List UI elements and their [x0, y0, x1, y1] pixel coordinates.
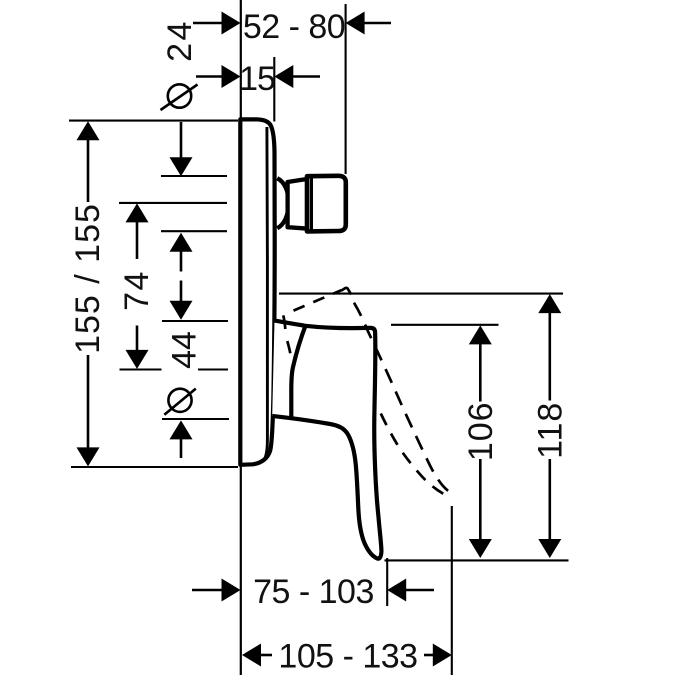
dim 52-80 left arrow	[222, 12, 241, 35]
dim 106 top arrow	[469, 325, 492, 344]
dim 155/155 bottom arrow	[87, 355, 90, 448]
handle collar edge	[291, 326, 305, 417]
escutcheon plate outline	[240, 119, 274, 464]
plate inner contour line	[264, 127, 267, 460]
svg-text:15: 15	[239, 60, 275, 98]
dim 106 bottom arrow	[479, 459, 482, 540]
dim Ø44 bottom extension line	[162, 418, 229, 420]
dim 155/155 bottom extension line	[71, 466, 238, 468]
knob face line	[310, 177, 313, 230]
dim 105-133 extension line at raised-handle tip	[451, 506, 453, 675]
wall line	[240, 0, 242, 675]
dim Ø44 diameter symbol	[168, 389, 191, 412]
dim 74 bottom extension line (handle axis)	[120, 368, 162, 370]
dim 74 bottom arrow	[136, 326, 139, 352]
dim 75-103 left arrow	[192, 589, 223, 592]
dim Ø44 top extension line	[162, 320, 228, 322]
knob top extension line	[161, 175, 227, 177]
dashed raised-handle lower silhouette	[381, 414, 445, 495]
svg-text:106: 106	[462, 401, 500, 461]
dim 15 left arrow	[222, 65, 241, 88]
svg-text:118: 118	[532, 402, 570, 459]
svg-text:75 - 103: 75 - 103	[253, 573, 374, 611]
knob collar	[288, 179, 309, 229]
dim 52-80 extension line at knob face	[345, 4, 347, 174]
svg-text:52 - 80: 52 - 80	[243, 8, 345, 46]
dashed raised-handle back edge	[283, 315, 290, 353]
dim 52-80 right arrow	[346, 12, 365, 35]
dim 105-133 right arrow	[433, 644, 452, 667]
dim Ø24 upper arrow	[180, 122, 183, 159]
dim 118 top arrow	[538, 294, 561, 313]
svg-text:105 - 133: 105 - 133	[278, 638, 417, 675]
svg-text:44: 44	[166, 331, 204, 369]
dim 15 extension line at plate face	[273, 57, 275, 122]
dim Ø24 diameter symbol	[168, 84, 191, 107]
bottom reference baseline	[385, 559, 569, 561]
dim 155/155 top extension line	[69, 120, 238, 122]
svg-text:24: 24	[161, 19, 199, 62]
knob bottom extension line	[161, 230, 227, 232]
dim 118 top extension line	[279, 293, 563, 295]
handle outline (lever in rest position)	[272, 321, 381, 559]
dim Ø24 lower arrow chained with dim Ø44 upper arrow	[170, 233, 193, 252]
dim 118 bottom arrow	[548, 459, 551, 541]
dim 74 top arrow	[126, 203, 149, 222]
dim 75-103 extension line at handle tip	[386, 558, 388, 606]
knob arc (cartridge neck bulge)	[277, 178, 289, 228]
dim 155/155 top arrow	[77, 121, 100, 140]
dim 106 top extension line	[391, 324, 499, 326]
dim Ø44 bottom arrow	[170, 420, 193, 439]
svg-text:155 / 155: 155 / 155	[69, 203, 107, 354]
dim 75-103 right arrow	[387, 579, 406, 602]
dim 15 right arrow	[274, 65, 293, 88]
dashed raised-handle upper silhouette	[294, 290, 342, 311]
svg-text:74: 74	[118, 270, 156, 311]
dim 105-133 left arrow	[242, 644, 261, 667]
dim 74 top extension line (knob axis)	[119, 202, 227, 204]
knob body	[307, 176, 346, 232]
